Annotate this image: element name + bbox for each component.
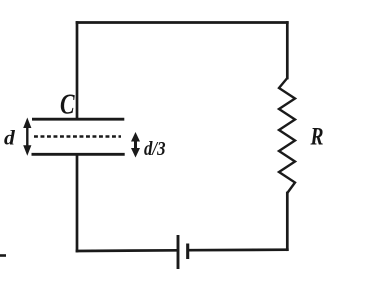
- battery cell short plate: [186, 244, 189, 260]
- capacitor C1 top plate: [32, 118, 124, 121]
- dimension arrow d (double-headed): [23, 118, 31, 156]
- svg-text:d/3: d/3: [144, 138, 166, 160]
- wire right lower vertical: [286, 193, 289, 250]
- wire top horizontal: [77, 21, 287, 24]
- wire left lower vertical: [76, 155, 79, 251]
- wire left upper vertical: [76, 23, 79, 119]
- capacitor C1 bottom plate: [32, 153, 125, 156]
- stray tick mark at left edge: [0, 254, 6, 257]
- battery cell long plate: [177, 235, 180, 269]
- svg-text:R: R: [310, 122, 324, 150]
- resistor R zigzag: [279, 78, 295, 193]
- wire right upper vertical: [286, 23, 289, 79]
- wire bottom left horizontal: [77, 249, 177, 252]
- capacitor C1 dielectric slab dashed line: [34, 135, 121, 138]
- svg-text:C: C: [60, 90, 75, 120]
- dimension arrow d/3 (double-headed): [131, 132, 140, 158]
- wire bottom right horizontal: [189, 248, 288, 251]
- svg-text:d: d: [4, 126, 16, 150]
